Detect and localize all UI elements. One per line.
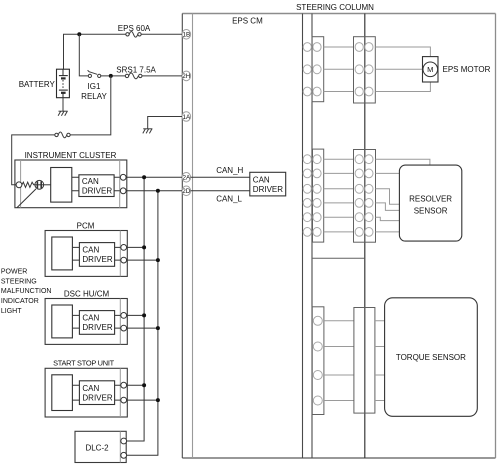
wire PCM CAN_L: [127, 259, 158, 261]
wires SSU block to CAN driver: [72, 385, 79, 400]
svg-text:CAN_L: CAN_L: [216, 194, 242, 203]
torque sensor box: [385, 298, 478, 417]
CAN driver (cluster): [79, 175, 114, 197]
svg-text:STEERING: STEERING: [1, 278, 37, 285]
svg-text:1B: 1B: [182, 32, 190, 39]
wires to resolver sensor: [376, 159, 430, 232]
svg-text:CAN: CAN: [82, 246, 99, 255]
wire battery to ground: [62, 98, 64, 112]
ground battery: [58, 111, 68, 116]
wires DSC driver to connector: [115, 315, 121, 328]
wires SSU driver to connector: [115, 385, 121, 400]
svg-text:INSTRUMENT CLUSTER: INSTRUMENT CLUSTER: [25, 151, 117, 160]
wire SSU CAN_L: [127, 399, 158, 401]
wire lamp to block: [44, 184, 51, 186]
gap wires torque rows: [324, 321, 354, 401]
svg-text:RESOLVER: RESOLVER: [409, 195, 452, 204]
svg-text:CAN: CAN: [82, 384, 99, 393]
DLC-2: [75, 431, 126, 462]
pin 2A: [182, 173, 191, 183]
svg-text:1A: 1A: [182, 114, 191, 121]
svg-text:DLC-2: DLC-2: [85, 443, 109, 452]
wire 1A to ground: [148, 117, 182, 129]
wall connector (torque): [354, 308, 365, 414]
node dots cluster row: [142, 175, 146, 179]
CAN_H bus: [126, 177, 144, 441]
wires to EPS motor: [375, 47, 430, 92]
DSC output pins: [121, 313, 127, 319]
svg-text:DSC HU/CM: DSC HU/CM: [64, 290, 110, 299]
CAN_L bus: [126, 191, 157, 456]
diagonal pointer to indicator light: [17, 189, 36, 208]
connector box EPS side (motor): [312, 37, 324, 102]
PCM output pins: [121, 245, 127, 251]
fuse cluster feed: [55, 132, 70, 138]
DSC internal block: [52, 305, 73, 338]
CAN driver (start stop unit): [79, 381, 114, 405]
svg-text:M: M: [427, 65, 433, 74]
wires PCM block to CAN driver: [72, 247, 79, 260]
DSC HU/CM box: [45, 299, 127, 345]
CAN driver (PCM): [79, 243, 114, 267]
wire to IG1 relay: [79, 34, 88, 76]
svg-text:DRIVER: DRIVER: [82, 187, 112, 196]
pin 1B: [182, 30, 191, 40]
svg-text:RELAY: RELAY: [81, 92, 107, 101]
start stop internal block: [52, 375, 73, 411]
DLC-2 output pins: [121, 438, 127, 444]
connector box EPS side (torque): [312, 307, 324, 415]
svg-text:CAN: CAN: [253, 175, 270, 184]
wires to torque sensor: [375, 321, 385, 401]
fuse SRS1 7.5A: [125, 73, 142, 79]
resolver pins: [303, 155, 373, 237]
svg-text:DRIVER: DRIVER: [253, 185, 283, 194]
steering column box: [364, 14, 366, 459]
connector box EPS side (resolver): [313, 149, 324, 242]
lamp indicator: [34, 180, 44, 189]
svg-text:DRIVER: DRIVER: [82, 323, 112, 332]
label power steering malfunction indicator light: [1, 268, 52, 315]
svg-text:MALFUNCTION: MALFUNCTION: [1, 288, 52, 295]
resolver sensor box: [399, 165, 461, 241]
svg-text:DRIVER: DRIVER: [82, 393, 112, 402]
svg-text:SRS1 7.5A: SRS1 7.5A: [116, 66, 156, 75]
PCM box: [45, 231, 127, 277]
svg-text:INDICATOR: INDICATOR: [1, 298, 39, 305]
pin 2H: [182, 71, 191, 81]
pin 2D: [182, 186, 191, 196]
node relay output junction: [109, 74, 113, 78]
svg-text:CAN_H: CAN_H: [216, 166, 243, 175]
svg-text:DRIVER: DRIVER: [82, 255, 112, 264]
wires driver to strip: [114, 177, 120, 191]
torque pins: [313, 316, 322, 405]
wire SRS1: [101, 75, 182, 77]
svg-text:EPS 60A: EPS 60A: [118, 24, 151, 33]
svg-text:BATTERY: BATTERY: [19, 80, 56, 89]
wire cluster CAN_H to 2A: [126, 176, 182, 178]
svg-text:START STOP UNIT: START STOP UNIT: [53, 358, 115, 367]
switch IG1 relay: [88, 70, 101, 77]
svg-text:POWER: POWER: [1, 268, 27, 275]
svg-text:STEERING COLUMN: STEERING COLUMN: [296, 3, 374, 12]
motor connector pins: [303, 43, 373, 96]
start stop unit box: [45, 368, 127, 417]
svg-text:2H: 2H: [182, 73, 191, 80]
wall connector (resolver): [354, 150, 365, 243]
wire DSC CAN_L: [127, 327, 158, 329]
fuse EPS 60A: [126, 31, 141, 37]
svg-text:LIGHT: LIGHT: [1, 308, 22, 315]
wire DSC CAN_H: [127, 314, 145, 316]
wires block to CAN driver: [72, 177, 79, 191]
node battery junction: [77, 32, 81, 36]
wire shield link: [312, 257, 365, 259]
battery BT: [57, 69, 70, 98]
EPS CM CAN driver: [191, 177, 250, 191]
svg-text:CAN: CAN: [82, 177, 99, 186]
svg-text:TORQUE SENSOR: TORQUE SENSOR: [396, 353, 466, 362]
svg-text:PCM: PCM: [77, 221, 95, 230]
motor EPS MOTOR: [423, 57, 439, 82]
EPS CM box: [182, 13, 495, 15]
wire relay to cluster feed: [12, 76, 111, 185]
cluster internal block: [51, 168, 72, 203]
gap wires resolver rows: [324, 159, 354, 232]
CAN driver (DSC): [79, 311, 114, 335]
ground 1A: [143, 129, 153, 134]
wires PCM driver to connector: [115, 247, 121, 260]
SSU output pins: [121, 382, 127, 388]
cluster output pins: [120, 174, 126, 180]
pin 1A: [182, 112, 191, 122]
wire cluster CAN_L to 2D: [126, 190, 182, 192]
svg-text:2D: 2D: [182, 188, 191, 195]
wall connector (motor): [354, 37, 365, 103]
node cluster feed pin: [16, 182, 22, 188]
wire PCM CAN_H: [127, 246, 145, 248]
svg-text:SENSOR: SENSOR: [414, 207, 448, 216]
gap wires motor rows: [324, 47, 354, 92]
PCM internal block: [52, 237, 73, 270]
svg-text:EPS CM: EPS CM: [232, 17, 263, 26]
EPS CM left strip inner line: [192, 14, 194, 459]
wires DSC block to CAN driver: [72, 315, 79, 328]
wire SSU CAN_H: [127, 384, 145, 386]
resistor (cluster): [22, 182, 34, 187]
svg-text:2A: 2A: [182, 175, 191, 182]
battery B+ wire: [64, 34, 183, 69]
svg-text:EPS MOTOR: EPS MOTOR: [443, 65, 491, 74]
svg-text:IG1: IG1: [88, 82, 101, 91]
svg-text:CAN: CAN: [82, 314, 99, 323]
